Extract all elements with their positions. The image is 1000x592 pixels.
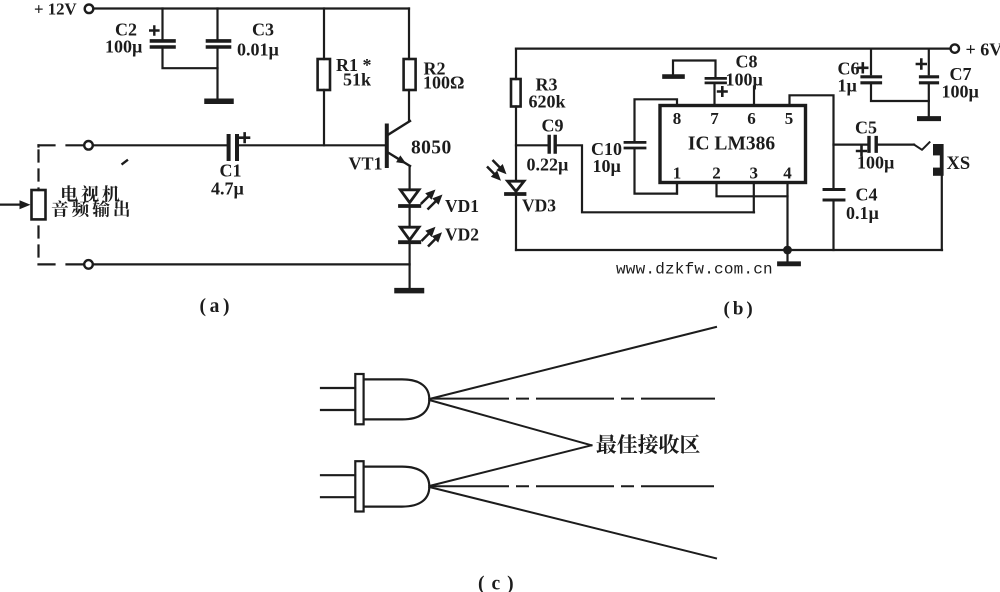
svg-text:0.01µ: 0.01µ — [237, 40, 280, 60]
svg-text:100µ: 100µ — [942, 82, 980, 102]
svg-text:C1: C1 — [220, 161, 242, 181]
svg-text:VD2: VD2 — [445, 225, 479, 245]
svg-text:VD3: VD3 — [522, 196, 556, 216]
svg-text:620k: 620k — [529, 92, 566, 112]
svg-text:C8: C8 — [736, 52, 758, 72]
svg-text:10µ: 10µ — [593, 156, 622, 176]
svg-text:C3: C3 — [252, 20, 274, 40]
svg-text:3: 3 — [750, 164, 759, 183]
svg-text:0.22µ: 0.22µ — [527, 155, 570, 175]
svg-text:100µ: 100µ — [726, 70, 764, 90]
svg-text:C4: C4 — [856, 185, 878, 205]
svg-text:XS: XS — [947, 154, 971, 174]
svg-text:51k: 51k — [343, 70, 371, 90]
svg-text:8050: 8050 — [411, 138, 452, 159]
svg-text:100µ: 100µ — [105, 37, 143, 57]
svg-text:C5: C5 — [855, 118, 877, 138]
svg-text:7: 7 — [710, 109, 719, 128]
svg-text:(b): (b) — [724, 299, 756, 320]
svg-text:VD1: VD1 — [445, 196, 479, 216]
svg-text:1µ: 1µ — [838, 76, 858, 96]
svg-text:1: 1 — [673, 164, 682, 183]
svg-text:C9: C9 — [542, 116, 564, 136]
svg-text:4: 4 — [783, 164, 792, 183]
svg-text:2: 2 — [712, 164, 721, 183]
svg-text:100Ω: 100Ω — [423, 73, 464, 93]
svg-text:IC LM386: IC LM386 — [688, 134, 775, 155]
svg-text:100µ: 100µ — [857, 153, 895, 173]
svg-text:+ 6V: + 6V — [966, 40, 1000, 60]
svg-text:5: 5 — [785, 109, 794, 128]
svg-text:(c): (c) — [478, 574, 521, 592]
svg-text:8: 8 — [673, 109, 682, 128]
svg-text:6: 6 — [747, 109, 756, 128]
svg-text:4.7µ: 4.7µ — [211, 179, 245, 199]
svg-text:+ 12V: + 12V — [34, 0, 77, 19]
svg-text:(a): (a) — [200, 296, 234, 317]
svg-text:www.dzkfw.com.cn: www.dzkfw.com.cn — [616, 261, 773, 279]
svg-text:0.1µ: 0.1µ — [846, 203, 880, 223]
svg-text:VT1: VT1 — [349, 154, 383, 174]
